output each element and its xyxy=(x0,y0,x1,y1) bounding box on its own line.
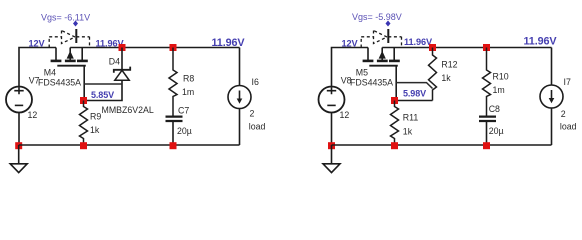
current source I7 xyxy=(540,85,563,108)
svg-text:R9: R9 xyxy=(90,112,101,122)
svg-text:C7: C7 xyxy=(178,106,189,116)
wire V7 top lead and 12V rail segment xyxy=(19,48,56,87)
svg-text:load: load xyxy=(249,122,266,132)
body diode cathode bar xyxy=(75,29,77,43)
svg-text:2: 2 xyxy=(250,109,255,119)
source finger xyxy=(51,48,62,61)
wire V8 top lead and 12V rail segment xyxy=(332,48,369,87)
svg-text:1k: 1k xyxy=(441,73,451,83)
wire V7 bottom lead xyxy=(18,112,20,145)
wire C7 bottom lead xyxy=(172,121,174,145)
svg-text:12V: 12V xyxy=(29,39,46,49)
gate plate xyxy=(369,65,398,67)
voltage source V8 xyxy=(319,87,345,113)
wire D4 cathode lead xyxy=(121,48,123,70)
svg-text:C8: C8 xyxy=(489,104,500,114)
annotation box 5.85V top edge xyxy=(84,83,122,85)
svg-text:Vgs= -6.11V: Vgs= -6.11V xyxy=(41,12,90,22)
ground xyxy=(10,145,27,173)
transistor M5 xyxy=(361,29,401,66)
drain finger xyxy=(77,48,88,61)
svg-text:FDS4435A: FDS4435A xyxy=(38,77,81,87)
node R9 bottom junction xyxy=(80,142,87,149)
node junction V8 bottom xyxy=(328,142,335,149)
wire 11.96V rail xyxy=(70,47,239,49)
gate plate xyxy=(57,65,86,67)
annotation box 5.98V top edge xyxy=(396,83,432,89)
svg-text:12: 12 xyxy=(28,110,38,120)
svg-text:M5: M5 xyxy=(356,68,368,78)
wire bottom rail right circuit xyxy=(332,144,552,146)
node junction V7 bottom xyxy=(15,142,22,149)
svg-text:I6: I6 xyxy=(252,77,259,87)
svg-text:FDS4435A: FDS4435A xyxy=(350,77,393,87)
current source I6 xyxy=(228,86,251,109)
diode D4 zener xyxy=(114,67,130,81)
node R8 top junction xyxy=(170,44,177,51)
voltage source V7 xyxy=(6,87,32,113)
capacitor C7 xyxy=(166,117,183,121)
node 11.96V junction right xyxy=(429,44,436,51)
node 11.96V junction xyxy=(119,44,126,51)
node C7 bottom junction xyxy=(170,142,177,149)
ground right xyxy=(323,145,340,173)
svg-text:MMBZ6V2AL: MMBZ6V2AL xyxy=(102,105,154,115)
marker under Vgs label xyxy=(73,21,78,27)
svg-text:5.98V: 5.98V xyxy=(403,88,426,98)
body finger with arrow xyxy=(65,48,76,61)
source finger xyxy=(363,48,374,61)
wire I7 bottom lead xyxy=(551,108,553,145)
wire M4 gate lead xyxy=(83,66,85,101)
svg-text:R8: R8 xyxy=(183,73,194,83)
svg-text:11.96V: 11.96V xyxy=(404,37,433,47)
node R10 top junction xyxy=(483,44,490,51)
svg-text:5.85V: 5.85V xyxy=(91,90,114,100)
transistor M4 xyxy=(49,29,89,66)
svg-text:M4: M4 xyxy=(44,68,56,78)
wire C8 bottom lead xyxy=(486,121,488,145)
body diode dashed xyxy=(361,31,401,48)
node gate 5.85V junction xyxy=(80,97,87,104)
wire I6 bottom lead xyxy=(239,109,241,146)
svg-text:20µ: 20µ xyxy=(489,126,504,136)
body diode cathode bar xyxy=(387,29,389,43)
svg-text:R12: R12 xyxy=(441,60,457,70)
svg-text:load: load xyxy=(560,121,577,131)
wire D4 anode to gate node xyxy=(84,80,123,100)
marker under Vgs label xyxy=(386,21,391,27)
wire bottom rail left circuit xyxy=(19,144,240,146)
node gate 5.98V junction xyxy=(391,97,398,104)
wire M5 gate lead xyxy=(395,66,397,101)
svg-text:1k: 1k xyxy=(403,126,413,136)
svg-text:1m: 1m xyxy=(493,85,505,95)
wire I7 top lead xyxy=(551,48,553,86)
resistor R11 xyxy=(391,101,399,146)
svg-text:Vgs= -5.98V: Vgs= -5.98V xyxy=(352,12,402,22)
wire V8 bottom lead xyxy=(331,112,333,145)
body diode dashed xyxy=(49,31,89,48)
resistor R8 xyxy=(169,48,177,117)
resistor R9 xyxy=(80,101,88,146)
svg-text:1k: 1k xyxy=(90,125,100,135)
resistor R10 xyxy=(483,48,491,117)
svg-text:11.96V: 11.96V xyxy=(524,35,558,47)
svg-text:11.96V: 11.96V xyxy=(212,37,246,49)
svg-text:D4: D4 xyxy=(109,56,120,66)
svg-text:20µ: 20µ xyxy=(177,126,192,136)
svg-text:12: 12 xyxy=(340,110,350,120)
wire R12 bottom to gate node xyxy=(395,100,433,102)
capacitor C8 xyxy=(479,117,496,121)
wire I6 top lead xyxy=(239,48,241,86)
resistor R12 xyxy=(429,48,437,101)
wire 11.96V rail right xyxy=(382,47,551,49)
svg-text:R11: R11 xyxy=(403,113,419,123)
body finger with arrow xyxy=(377,48,388,61)
svg-text:I7: I7 xyxy=(564,77,571,87)
svg-text:1m: 1m xyxy=(182,87,194,97)
node C8 bottom junction xyxy=(483,142,490,149)
node R11 bottom junction xyxy=(391,142,398,149)
svg-text:12V: 12V xyxy=(342,39,359,49)
svg-text:2: 2 xyxy=(561,109,566,119)
drain finger xyxy=(389,48,400,61)
svg-text:R10: R10 xyxy=(493,72,509,82)
